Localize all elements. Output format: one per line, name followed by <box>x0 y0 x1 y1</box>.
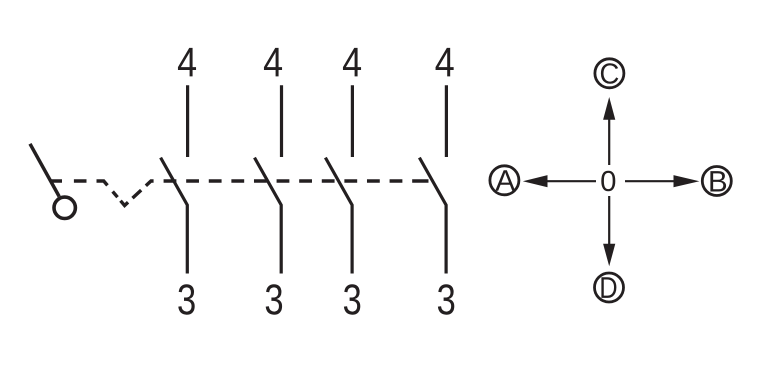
left arrow head <box>523 175 548 187</box>
actuator knob circle <box>54 197 75 218</box>
down arrow head <box>603 244 615 266</box>
pole 1 pin label 3 <box>178 284 194 314</box>
pole 4 pin label 4 <box>436 48 454 76</box>
pole 4 pin label 3 <box>438 284 454 314</box>
up arrow shaft (to direction C) <box>608 118 610 165</box>
node 0 (neutral position) label <box>601 171 615 191</box>
direction C circle <box>595 59 624 88</box>
direction C letter <box>601 63 618 84</box>
pole 3 switch blade and bottom terminal wire (pin 3) <box>325 158 352 274</box>
direction A letter <box>495 170 515 190</box>
right arrow head <box>674 175 700 187</box>
direction A circle <box>490 166 519 195</box>
direction D letter <box>601 277 616 298</box>
pole 4 top terminal wire (pin 4) <box>445 85 448 157</box>
pole 4 switch blade and bottom terminal wire (pin 3) <box>419 158 446 274</box>
direction B circle <box>702 167 731 196</box>
direction D circle <box>595 273 624 302</box>
pole 2 pin label 4 <box>264 48 282 76</box>
actuator lever <box>30 144 59 197</box>
pole 1 top terminal wire (pin 4) <box>186 85 189 157</box>
pole 1 switch blade and bottom terminal wire (pin 3) <box>161 158 188 274</box>
pole 2 pin label 3 <box>266 284 282 314</box>
pole 3 pin label 4 <box>343 48 361 76</box>
right arrow shaft (to direction B) <box>625 180 675 182</box>
pole 2 top terminal wire (pin 4) <box>280 85 283 157</box>
up arrow head <box>603 97 615 120</box>
pole 1 pin label 4 <box>178 48 196 76</box>
down arrow shaft (to direction D) <box>608 196 610 245</box>
pole 2 switch blade and bottom terminal wire (pin 3) <box>255 158 282 274</box>
direction B letter <box>710 171 726 191</box>
pole 3 pin label 3 <box>344 284 360 314</box>
left arrow shaft (to direction A) <box>546 180 596 182</box>
mechanical linkage dashed wire with V detent <box>52 181 432 206</box>
pole 3 top terminal wire (pin 4) <box>351 85 354 157</box>
